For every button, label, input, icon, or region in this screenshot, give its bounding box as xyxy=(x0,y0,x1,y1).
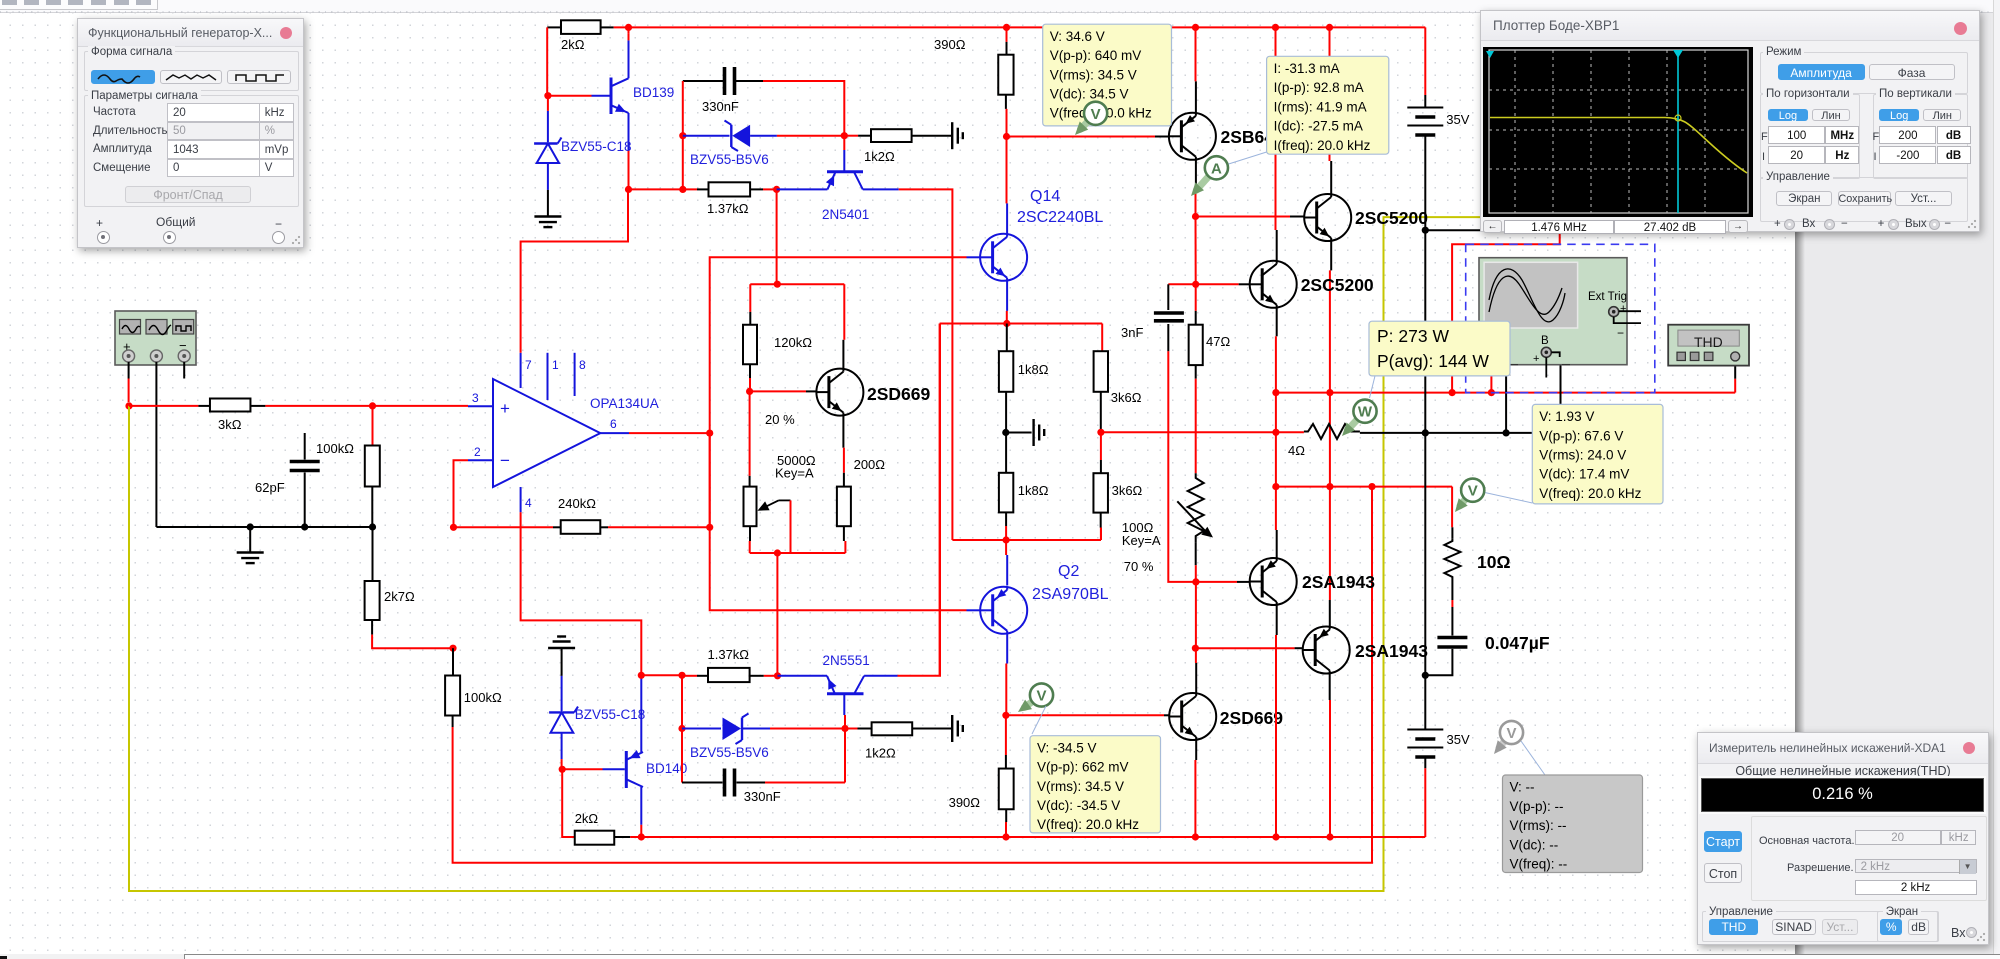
voltage probe V1 (on 2SB649 base wire) xyxy=(1081,121,1089,129)
node: emitters rail left dot xyxy=(1272,389,1279,396)
node: pot rail dot xyxy=(774,549,781,556)
svg-text:7: 7 xyxy=(525,358,532,372)
wire base node to BD139 xyxy=(548,95,592,97)
svg-text:V(rms): 24.0 V: V(rms): 24.0 V xyxy=(1539,448,1626,463)
probe box V -34.5V (VAS) xyxy=(1032,706,1046,734)
wire pot wiper down xyxy=(790,500,792,553)
node: top rail at BD139 collector xyxy=(625,24,632,31)
function generator dialog XFG1 xyxy=(77,18,304,248)
zener diode BZV55-C18 (top) xyxy=(547,96,549,111)
wire oscilloscope A+ red from 486-knot: up at x=1452.1 over top of dashed box xyxy=(1452,233,1560,393)
resistor 2kOhm (bottom) xyxy=(562,769,575,837)
resistor 47 Ohm xyxy=(1195,284,1197,311)
node: right bridge node -> output bases rail xyxy=(1097,429,1104,436)
svg-text:2k7Ω: 2k7Ω xyxy=(384,589,415,604)
variable resistor 100 Ohm Key=A (zigzag with arrow) xyxy=(1188,473,1204,542)
zener diode BZV55-B5V6 (top, filled blue, pointing left) xyxy=(683,135,730,137)
wire 2SA1943 lower emitter down to rail xyxy=(1329,673,1331,700)
svg-text:V(p-p): 67.6 V: V(p-p): 67.6 V xyxy=(1539,428,1623,443)
svg-text:V(rms): --: V(rms): -- xyxy=(1510,818,1567,833)
wire 2SD669 collector up to rail xyxy=(842,340,844,369)
wire 3k to op-amp pin3 xyxy=(265,405,468,407)
capacitor 62pF xyxy=(304,433,306,460)
svg-text:390Ω: 390Ω xyxy=(949,795,981,810)
ground bus (black) under input network xyxy=(156,526,372,528)
svg-text:+: + xyxy=(500,399,510,418)
wire rail to 2SC5200#2 base xyxy=(1168,283,1238,285)
svg-text:2N5401: 2N5401 xyxy=(822,207,869,222)
wire Q2 collector down to output node xyxy=(1006,633,1008,664)
resistor 390 Ohm (bottom) xyxy=(1005,755,1007,769)
svg-text:V(freq): 20.0 kHz: V(freq): 20.0 kHz xyxy=(1037,817,1139,832)
op-amp pin 6 output xyxy=(600,432,629,434)
resistor 1.37kOhm (bottom) xyxy=(682,675,697,677)
resistor 10 Ohm (zigzag vertical) xyxy=(1451,527,1453,538)
svg-text:B: B xyxy=(1541,335,1549,347)
svg-text:240kΩ: 240kΩ xyxy=(558,496,596,511)
wire pot bottom rail xyxy=(750,552,846,554)
svg-text:2SA1943: 2SA1943 xyxy=(1355,641,1428,661)
capacitor 330nF (top) xyxy=(683,80,723,82)
svg-text:47Ω: 47Ω xyxy=(1206,334,1230,349)
transistor BD139 (blue, no circle) xyxy=(592,95,611,97)
wire 2SA1943 upper emitter down to rail xyxy=(1276,605,1278,635)
output bases rail y=432.3 xyxy=(1101,431,1276,433)
resistor 1k8 (bottom) xyxy=(1005,433,1007,473)
ground right of 1k2 (bottom) xyxy=(951,715,953,742)
THD analyzer dialog XDA1 xyxy=(1697,732,1989,945)
wire BD140 base xyxy=(562,768,602,770)
bottom -35V rail xyxy=(641,836,1425,838)
transistor Q2 2SA970BL (blue circle) xyxy=(980,587,1027,634)
svg-text:330nF: 330nF xyxy=(702,99,739,114)
wire 2SD669 base from VAS node xyxy=(1006,714,1164,716)
wire 2SC5200#2 emitter down xyxy=(1276,308,1278,337)
probe box I -31.3mA xyxy=(1229,152,1267,164)
wire node rail to 2SA1943 lower base xyxy=(1195,647,1294,649)
svg-text:390Ω: 390Ω xyxy=(934,37,966,52)
wire scope A channel + down to output rail xyxy=(1490,366,1492,393)
svg-text:62pF: 62pF xyxy=(255,480,285,495)
node: mid-bridge ground node (black) xyxy=(1002,429,1009,436)
svg-text:20 %: 20 % xyxy=(765,412,795,427)
wire 2SB649 collector(top) to rail xyxy=(1195,81,1197,113)
svg-text:V(dc): 34.5 V: V(dc): 34.5 V xyxy=(1050,87,1129,102)
wire op-amp output to feedback column xyxy=(629,432,710,434)
wire 2SC5200#2 collector from top rail xyxy=(1272,24,1279,31)
wire pin4 V- supply down to BD140 node xyxy=(521,512,642,675)
node: input node dot xyxy=(125,402,132,409)
wire 2N5401 collector to column x=952.4 xyxy=(899,189,953,540)
wire x=1329.9 down to 2SA1943 lower collector xyxy=(1329,393,1331,487)
svg-text:3k6Ω: 3k6Ω xyxy=(1111,390,1142,405)
node: dot under 3k net at 100k xyxy=(369,402,376,409)
svg-text:THD: THD xyxy=(1694,334,1723,350)
voltage probe V (inactive gray) xyxy=(1499,741,1505,748)
svg-text:Q14: Q14 xyxy=(1030,188,1060,205)
transistor 2SB649 (top current source) xyxy=(1169,113,1216,160)
svg-text:V(dc): --: V(dc): -- xyxy=(1510,837,1559,852)
svg-text:I(rms): 41.9 mA: I(rms): 41.9 mA xyxy=(1274,99,1367,114)
svg-text:V(freq): --: V(freq): -- xyxy=(1510,857,1568,872)
node: BD140 emitter / pin4 supply node xyxy=(638,672,645,679)
wire pin2 feedback corner xyxy=(454,460,469,527)
svg-text:V: 34.6 V: V: 34.6 V xyxy=(1050,29,1105,44)
svg-text:10Ω: 10Ω xyxy=(1477,552,1511,572)
wire emitter rail to 2SC5200#1 base xyxy=(1196,216,1291,218)
wire rail down x=1275.9 to 486 rail xyxy=(1275,393,1277,433)
wire node down to 100k xyxy=(372,406,374,446)
wire bridge bottom right corner to 3k6 bottom xyxy=(1100,528,1102,540)
probe box V 1.93V (output) xyxy=(1485,493,1532,503)
svg-text:100kΩ: 100kΩ xyxy=(464,690,502,705)
resistor 240kOhm xyxy=(454,526,554,528)
wire input node to R 3k xyxy=(129,405,198,407)
wire 2N5551 collector to column x=940 xyxy=(898,324,941,676)
node: zener B5V6 anode column xyxy=(679,132,686,139)
wire XFG - terminal stub xyxy=(183,362,185,379)
wire cap to battery column xyxy=(1425,649,1452,675)
svg-text:2kΩ: 2kΩ xyxy=(561,37,585,52)
svg-text:2SD669: 2SD669 xyxy=(867,384,931,404)
svg-text:V: --: V: -- xyxy=(1510,780,1535,795)
svg-text:2kΩ: 2kΩ xyxy=(575,811,599,826)
svg-text:I(p-p): 92.8 mA: I(p-p): 92.8 mA xyxy=(1274,80,1364,95)
capacitor 3nF xyxy=(1167,284,1169,310)
yellow feedback wire from input down and along bottom xyxy=(129,217,1483,891)
zobel: wire from 486 rail corner down to 10R xyxy=(1451,487,1453,528)
output feedback rail y=486.6 xyxy=(1276,486,1452,488)
svg-text:3kΩ: 3kΩ xyxy=(218,417,242,432)
node: feedback divider dot xyxy=(449,645,456,652)
op-amp U1 OPA134UA xyxy=(493,379,600,487)
wire Q14 emitter down to bridge top rail xyxy=(1006,281,1008,311)
transistor 2SD669 (bottom driver) xyxy=(1169,693,1216,740)
svg-text:V(p-p): 662 mV: V(p-p): 662 mV xyxy=(1037,760,1129,775)
wire XFG common terminal to ground bus xyxy=(155,362,157,527)
svg-text:V(p-p): 640 mV: V(p-p): 640 mV xyxy=(1050,48,1142,63)
svg-text:V: V xyxy=(1468,483,1478,500)
transistor 2N5551 (blue, rotated, no circle) xyxy=(778,675,828,677)
THD meter icon xyxy=(1668,325,1749,366)
function generator XFG icon xyxy=(115,311,196,365)
probe box P 273W xyxy=(1370,376,1376,398)
svg-text:P(avg): 144 W: P(avg): 144 W xyxy=(1377,351,1489,371)
node: output net dot on column x=709.7 xyxy=(706,430,713,437)
resistor 3k6 (top) xyxy=(1101,351,1103,360)
svg-text:V: V xyxy=(1091,106,1101,123)
node: 2SA1943 upper base junction xyxy=(1192,578,1199,585)
resistor 1k2 (top) xyxy=(844,135,858,137)
capacitor 330nF (bottom) xyxy=(682,782,723,784)
node: B5V6 bottom column top xyxy=(678,672,685,679)
svg-text:V(rms): 34.5 V: V(rms): 34.5 V xyxy=(1050,67,1137,82)
svg-text:1k8Ω: 1k8Ω xyxy=(1018,483,1049,498)
transistor Q 2SD669 (top driver) xyxy=(816,369,863,416)
svg-text:35V: 35V xyxy=(1446,112,1469,127)
wire node to 2SB649 base xyxy=(1007,136,1156,138)
wire feedback column up to Q14 base rail xyxy=(710,257,967,433)
node: BD139 emitter / V+ node xyxy=(625,186,632,193)
svg-text:A: A xyxy=(1211,160,1222,177)
wire node down to 120k rail xyxy=(776,189,778,284)
svg-text:200Ω: 200Ω xyxy=(854,457,886,472)
wire Q2 base xyxy=(967,609,981,611)
node: 1.37k right / 2N5401 emitter node xyxy=(773,186,780,193)
transistor Q14 2SC2240BL (blue circle) xyxy=(980,234,1027,281)
resistor 1k8 (top) xyxy=(1006,324,1008,352)
node: BD140 base node xyxy=(559,766,566,773)
node: 47R rail node xyxy=(1192,281,1199,288)
battery V1 minus wire down (black) with instrument taps xyxy=(1424,135,1426,730)
svg-text:Q2: Q2 xyxy=(1058,563,1079,580)
battery V2 35V (bottom) xyxy=(1407,729,1443,731)
ground symbol input xyxy=(249,527,251,553)
svg-text:Key=A: Key=A xyxy=(1122,533,1161,548)
wire 2SD669 emitter down to rail xyxy=(1195,740,1197,760)
node: 2k right node on bottom rail xyxy=(638,833,645,840)
svg-text:2SC5200: 2SC5200 xyxy=(1355,208,1428,228)
pot wiper arrow xyxy=(779,499,791,501)
svg-text:I(dc): -27.5 mA: I(dc): -27.5 mA xyxy=(1274,119,1363,134)
svg-text:+: + xyxy=(1533,353,1539,365)
probe box V 34.6V (top) xyxy=(1043,24,1172,126)
resistor 3k6 (bottom) xyxy=(1100,432,1102,460)
svg-text:V(rms): 34.5 V: V(rms): 34.5 V xyxy=(1037,779,1124,794)
node: pin2/240k/100k junction xyxy=(450,524,457,531)
wire Q14 base xyxy=(967,256,981,258)
op-amp pin 8 xyxy=(574,353,576,396)
wire Q2 emitter up to bridge bottom rail xyxy=(1006,555,1008,586)
wire feedback column x=709.7 down to Q2 base rail xyxy=(710,433,967,610)
wire Q14 collector up to 390R node xyxy=(1006,203,1008,233)
svg-text:W: W xyxy=(1358,404,1373,421)
svg-text:I(freq): 20.0 kHz: I(freq): 20.0 kHz xyxy=(1274,138,1371,153)
node: 390R / Q14 collector / 2SB649 base node xyxy=(1003,133,1010,140)
node: black tap to Bode (behind dialog) xyxy=(1422,227,1429,234)
resistor 100kOhm (input) xyxy=(365,446,380,487)
wire 3nF bottom down to 2SA1943 base junction xyxy=(1168,351,1196,582)
svg-text:2: 2 xyxy=(474,445,481,459)
wire pin7 V+ supply from BD139 emitter node xyxy=(521,189,628,352)
svg-text:V: 1.93 V: V: 1.93 V xyxy=(1539,409,1594,424)
rotated ground at bridge middle xyxy=(1006,432,1032,434)
transistor 2SA1943 (upper) xyxy=(1250,558,1297,605)
svg-text:3k6Ω: 3k6Ω xyxy=(1112,483,1143,498)
svg-text:3nF: 3nF xyxy=(1121,325,1143,340)
resistor 390 Ohm (top) xyxy=(1006,27,1008,42)
svg-text:0.047µF: 0.047µF xyxy=(1485,633,1550,653)
svg-text:1.37kΩ: 1.37kΩ xyxy=(707,201,749,216)
svg-text:1k8Ω: 1k8Ω xyxy=(1018,362,1049,377)
wire XFG + terminal xyxy=(128,362,130,379)
zener diode BZV55-B5V6 (bottom, filled blue, pointing right) xyxy=(682,728,721,730)
node: 2SB649 emitter node xyxy=(1192,213,1199,220)
resistor 2kOhm (top) xyxy=(547,26,561,28)
wire pot rail node down to 1.37k bottom node xyxy=(776,553,778,676)
svg-text:−: − xyxy=(1617,326,1624,340)
svg-text:2SC2240BL: 2SC2240BL xyxy=(1017,209,1103,226)
svg-text:4Ω: 4Ω xyxy=(1288,443,1305,458)
svg-text:2SC5200: 2SC5200 xyxy=(1301,275,1374,295)
wire 2k left corner down to BD139 base node xyxy=(546,27,548,95)
resistor 100kOhm (feedback) xyxy=(452,648,454,676)
wire 2SC5200#1 emitter down xyxy=(1330,241,1332,271)
resistor 3kOhm xyxy=(198,405,210,407)
wattmeter probe W xyxy=(1347,419,1357,430)
wire 2SC5200#1 collector from top rail xyxy=(1326,24,1333,31)
svg-text:V(dc): -34.5 V: V(dc): -34.5 V xyxy=(1037,798,1120,813)
wire 2SD669 emitter down to 200R xyxy=(842,416,844,448)
svg-text:120kΩ: 120kΩ xyxy=(774,335,812,350)
node: B5V6 bottom anode xyxy=(678,725,685,732)
ammeter probe A xyxy=(1196,176,1209,190)
wire bridge rail left corner down to 2N5551 collector column xyxy=(939,324,941,676)
oscilloscope XSC icon xyxy=(1479,258,1641,378)
node: VAS output node xyxy=(1002,712,1009,719)
svg-text:V(dc): 17.4 mV: V(dc): 17.4 mV xyxy=(1539,467,1629,482)
wire 330nF left column xyxy=(682,81,684,136)
svg-text:BZV55-C18: BZV55-C18 xyxy=(575,707,646,722)
svg-text:V(p-p): --: V(p-p): -- xyxy=(1510,799,1564,814)
node: 2SD669 collector node xyxy=(1192,645,1199,652)
svg-text:I: -31.3 mA: I: -31.3 mA xyxy=(1274,61,1340,76)
node: bridge bottom rail xyxy=(1003,536,1010,543)
node: 120k bottom / 2SD669 base node xyxy=(746,388,753,395)
svg-text:1k2Ω: 1k2Ω xyxy=(864,149,895,164)
capacitor 0.047uF xyxy=(1451,607,1453,636)
svg-text:3: 3 xyxy=(472,391,479,405)
svg-text:1.37kΩ: 1.37kΩ xyxy=(708,647,750,662)
resistor 2k7 xyxy=(372,527,374,581)
ground right of 1k2 (top) xyxy=(951,122,953,149)
svg-text:Key=A: Key=A xyxy=(775,466,814,481)
wire junction down to 2SD669 collector node xyxy=(1195,582,1197,648)
wire BD139 emitter down to 1.37k rail xyxy=(628,150,630,189)
svg-text:70 %: 70 % xyxy=(1124,559,1154,574)
op-amp pin 4 xyxy=(520,487,522,512)
node: scope A- tap xyxy=(1503,429,1510,436)
wire 330nF right up to base node xyxy=(844,729,846,783)
bridge top rail xyxy=(940,323,1103,325)
svg-text:330nF: 330nF xyxy=(744,789,781,804)
wire 100k down to bottom feedback rail xyxy=(453,487,1372,863)
wire bridge rail right corner down to 3k6 xyxy=(1101,324,1103,352)
svg-text:V: V xyxy=(1506,725,1516,742)
top +35V rail xyxy=(614,26,1426,28)
svg-text:35V: 35V xyxy=(1447,732,1470,747)
wire 2SD669 collector up xyxy=(1195,663,1197,693)
svg-text:Ext Trig: Ext Trig xyxy=(1588,291,1627,303)
wire zener to ground xyxy=(547,190,549,217)
bridge bottom rail xyxy=(952,539,1101,541)
wire 330nF right to 2N5401 base column xyxy=(763,81,844,136)
node: black junction with 4R output wire xyxy=(1422,429,1429,436)
battery V1 35V (top) xyxy=(1424,27,1426,95)
Bode plotter dialog XBP1 xyxy=(1480,10,1980,232)
probe box V -- (inactive gray) xyxy=(1521,741,1545,775)
svg-text:BZV55-C18: BZV55-C18 xyxy=(561,139,632,154)
op-amp pin 7 xyxy=(520,353,522,388)
resistor 4 Ohm (speaker load, zigzag) xyxy=(1276,431,1304,433)
inverted ground above BZV55-C18 (bottom) xyxy=(548,647,575,649)
wire THD meter input xyxy=(1734,361,1736,379)
resistor 120kOhm xyxy=(749,312,751,325)
svg-text:8: 8 xyxy=(579,358,586,372)
wire node right to B5V6 column xyxy=(641,674,682,676)
svg-text:BZV55-B5V6: BZV55-B5V6 xyxy=(690,152,769,167)
wire emitter node down to 47R/3nF rail xyxy=(1195,217,1197,285)
svg-text:6: 6 xyxy=(610,417,617,431)
svg-text:2SD669: 2SD669 xyxy=(1220,708,1284,728)
wire 4R to battery column and scope B xyxy=(1360,432,1425,434)
svg-text:V: V xyxy=(1036,688,1046,705)
svg-text:OPA134UA: OPA134UA xyxy=(590,396,659,411)
node: B5V6 cathode / 2N5401 base / 1k2 node xyxy=(841,132,848,139)
wire BD140 collector down to 2k xyxy=(640,825,642,837)
op-amp pin 3 (+) xyxy=(468,405,493,407)
transistor 2SC5200 #1 xyxy=(1304,194,1351,241)
potentiometer 5000 Ohm Key=A xyxy=(749,391,751,476)
node: 1.37k bottom right node xyxy=(774,672,781,679)
wire BD139 collector to top rail xyxy=(628,34,630,41)
resistor 200 Ohm xyxy=(843,473,845,487)
op-amp pin 2 (-) xyxy=(468,459,493,461)
transistor 2SA1943 (lower) xyxy=(1303,627,1350,674)
node: BD139 base node xyxy=(544,92,551,99)
svg-text:BZV55-B5V6: BZV55-B5V6 xyxy=(690,745,769,760)
transistor BD140 (blue, no circle) xyxy=(625,751,628,788)
zener diode BZV55-C18 (bottom) xyxy=(561,676,563,711)
voltage probe V at VAS node xyxy=(1025,701,1033,707)
node: black junction with zobel cap return xyxy=(1422,672,1429,679)
wire 2SA1943 upper collector from 486 rail xyxy=(1275,487,1277,530)
svg-text:2SA1943: 2SA1943 xyxy=(1302,572,1375,592)
svg-text:V: -34.5 V: V: -34.5 V xyxy=(1037,740,1097,755)
svg-text:4: 4 xyxy=(525,496,532,510)
transistor 2SC5200 #2 xyxy=(1250,261,1297,308)
node: 120k top rail dot xyxy=(774,281,781,288)
op-amp pin 1 xyxy=(547,353,549,400)
wire 100R bottom to base junction xyxy=(1195,543,1197,566)
svg-text:100kΩ: 100kΩ xyxy=(316,441,354,456)
emitters output rail xyxy=(1276,392,1735,394)
transistor 2N5401 (blue, rotated, no circle) xyxy=(777,188,828,190)
svg-text:2SA970BL: 2SA970BL xyxy=(1032,586,1109,603)
wire 120k top rail xyxy=(750,283,844,285)
svg-text:2N5551: 2N5551 xyxy=(823,653,870,668)
resistor 1.37kOhm (top) xyxy=(629,188,698,190)
resistor 1k2 (bottom) xyxy=(845,728,858,730)
node: column to 1.37k rail xyxy=(679,186,686,193)
wire 2k7 to 100k (feedback divider) xyxy=(372,635,453,649)
svg-text:1: 1 xyxy=(552,358,559,372)
voltage probe V (output) xyxy=(1460,499,1466,506)
node: 240k to column x=709.7 xyxy=(706,524,713,531)
node: bridge top rail xyxy=(1003,320,1010,327)
wire 2SB649 emitter down xyxy=(1195,160,1197,192)
svg-text:P: 273 W: P: 273 W xyxy=(1377,326,1449,346)
svg-text:1k2Ω: 1k2Ω xyxy=(865,746,896,761)
blue dashed selection rectangle around oscilloscope xyxy=(1466,244,1655,392)
wire VAS node down to 390R (bottom) xyxy=(1005,715,1007,755)
wire junction to 2SA1943 upper base xyxy=(1196,581,1237,583)
svg-text:V(freq): 20.0 kHz: V(freq): 20.0 kHz xyxy=(1539,486,1641,501)
wire scope B down (hidden behind V box) xyxy=(1560,354,1562,433)
svg-text:+: + xyxy=(1620,303,1626,315)
ground under BZV55-C18 xyxy=(534,215,561,217)
node: 2N5551 base node xyxy=(841,725,848,732)
